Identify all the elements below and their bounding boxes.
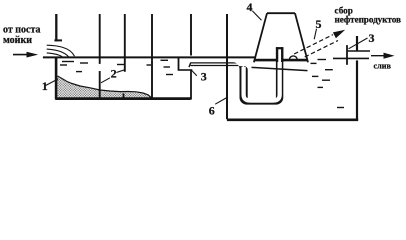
svg-text:5: 5 [316, 17, 322, 31]
svg-text:от поста: от поста [3, 25, 41, 36]
svg-text:3: 3 [201, 69, 207, 83]
svg-text:1: 1 [42, 79, 48, 93]
svg-text:6: 6 [209, 103, 215, 117]
svg-text:слив: слив [374, 62, 392, 71]
svg-text:мойки: мойки [3, 35, 32, 46]
svg-text:2: 2 [111, 67, 117, 81]
svg-text:4: 4 [247, 0, 253, 14]
svg-text:нефтепродуктов: нефтепродуктов [335, 15, 402, 25]
svg-text:3: 3 [369, 31, 375, 45]
